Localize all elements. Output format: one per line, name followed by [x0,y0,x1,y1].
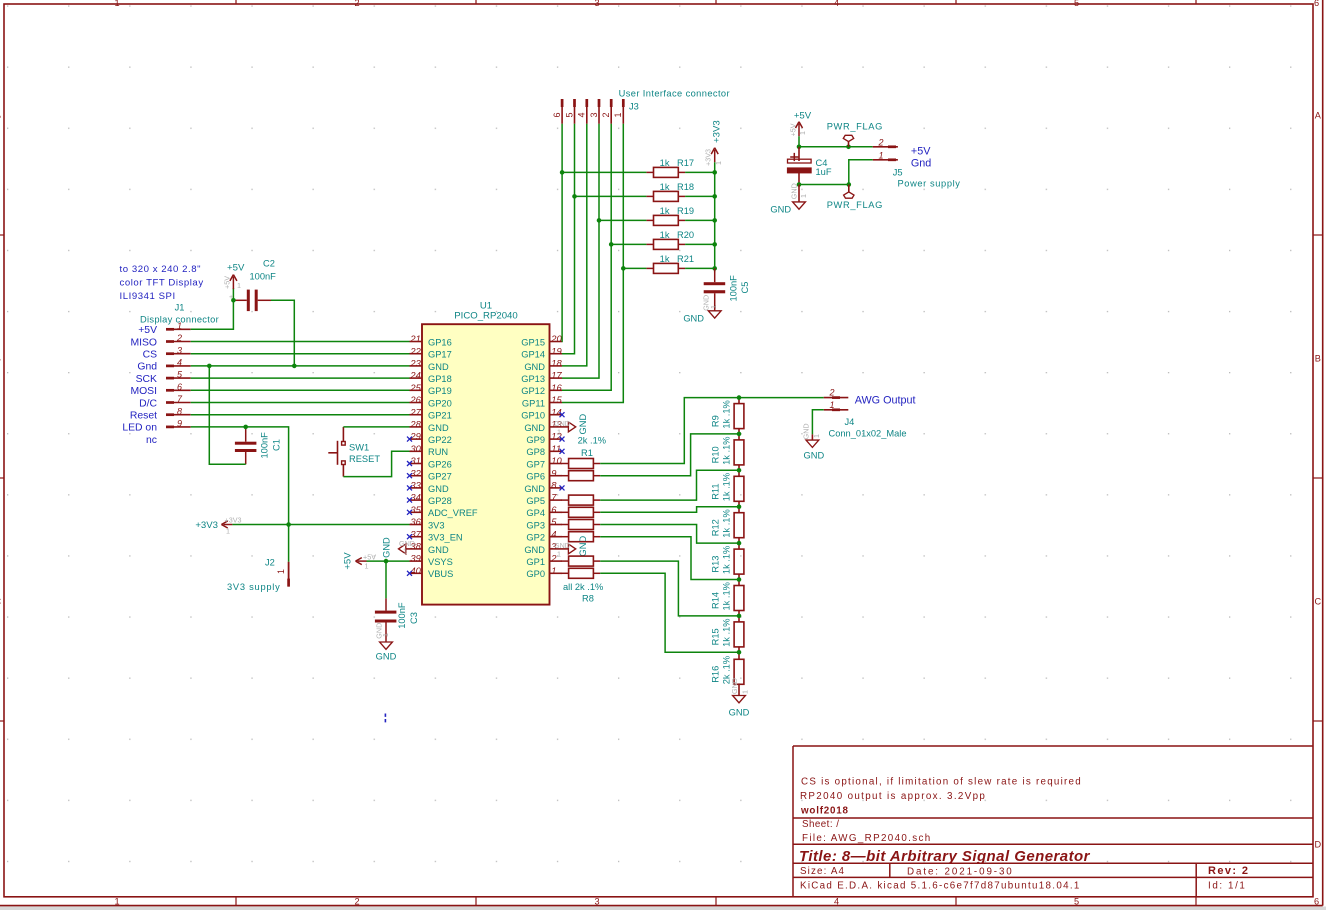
svg-text:PWR_FLAG: PWR_FLAG [827,200,883,210]
resistor R16 [710,652,744,695]
wire 3V3 to J2 [288,525,290,562]
wire [191,365,410,367]
svg-text:33: 33 [410,480,421,491]
svg-text:GP20: GP20 [428,398,452,408]
resistor R10 [710,434,744,470]
junction pull-up tap [609,242,614,247]
svg-text:1k: 1k [660,230,670,240]
svg-text:100nF: 100nF [397,602,407,629]
svg-text:39: 39 [410,553,421,564]
svg-text:Rev: 2: Rev: 2 [1208,865,1249,877]
svg-text:5: 5 [1074,897,1079,907]
svg-text:Gnd: Gnd [137,362,157,373]
svg-text:GP2: GP2 [526,533,545,543]
svg-text:1: 1 [226,527,230,536]
svg-text:9: 9 [177,419,182,429]
svg-text:GND: GND [524,545,545,555]
svg-text:R15: R15 [710,628,720,645]
svg-text:15: 15 [551,394,562,405]
junction PWR_FLAG top [846,145,851,150]
id field [1208,880,1246,891]
svg-text:C1: C1 [272,439,282,451]
power +3V3 above rail [704,120,724,166]
wire [191,389,410,391]
svg-text:4: 4 [551,528,556,539]
svg-text:R14: R14 [710,592,720,609]
svg-text:7: 7 [551,492,557,503]
svg-text:Power supply: Power supply [898,179,961,189]
resistor R9 [710,398,744,434]
wire J3 pin to U1 [561,124,563,342]
svg-text:2: 2 [601,112,611,117]
svg-text:2: 2 [354,0,359,8]
power GND below C4 [770,183,808,214]
svg-text:GND: GND [730,678,739,694]
wire [191,353,410,355]
svg-text:GP6: GP6 [526,472,545,482]
label D/C [139,398,157,409]
svg-text:R20: R20 [677,230,694,240]
svg-text:LED on: LED on [122,423,157,434]
svg-text:R18: R18 [677,182,694,192]
svg-text:MISO: MISO [130,337,157,348]
svg-text:37: 37 [410,528,421,539]
svg-text:+5V: +5V [138,325,157,336]
wire GP6 to ladder node [600,434,739,476]
svg-text:RESET: RESET [349,454,380,464]
svg-text:4: 4 [834,0,839,8]
label Gnd at J5 [911,157,931,169]
svg-text:R19: R19 [677,206,694,216]
junction ladder node [737,541,742,546]
sheet field [802,819,839,830]
junction C4 bottom [797,182,802,187]
svg-text:4: 4 [834,897,839,907]
svg-text:3: 3 [594,0,599,8]
svg-text:GP21: GP21 [428,411,452,421]
svg-text:to 320 x 240 2.8": to 320 x 240 2.8" [120,264,202,275]
svg-text:GND: GND [770,205,791,215]
svg-text:1k .1%: 1k .1% [722,436,732,464]
svg-text:GND: GND [804,451,825,461]
svg-text:31: 31 [410,455,420,466]
svg-text:GND: GND [524,484,545,494]
resistor R3 [562,495,601,505]
wire +3V3 rail [714,162,716,272]
connector J3 User Interface connector [552,89,730,124]
svg-text:1: 1 [709,305,718,309]
label LED on [122,423,157,434]
svg-text:RUN: RUN [428,447,448,457]
svg-text:Id: 1/1: Id: 1/1 [1208,880,1246,891]
svg-text:1: 1 [829,400,834,410]
svg-text:GND: GND [524,362,545,372]
svg-text:Sheet: /: Sheet: / [802,819,839,830]
svg-text:R21: R21 [677,254,694,264]
svg-text:5: 5 [551,516,557,527]
svg-text:18: 18 [551,358,562,369]
svg-text:Conn_01x02_Male: Conn_01x02_Male [829,429,907,439]
svg-text:User Interface connector: User Interface connector [619,89,730,99]
connector J5 Power supply [873,138,961,189]
svg-text:PICO_RP2040: PICO_RP2040 [454,311,517,322]
svg-text:GP13: GP13 [521,374,545,384]
resistor R14 [710,580,744,616]
label AWG Output [855,394,916,406]
wire tap to resistor [599,219,646,221]
capacitor C1 [235,427,282,464]
wire SW1 bottom to U1 pin 30 RUN [343,451,409,476]
power GND at U1 pin 38 [382,537,415,558]
svg-text:+5V: +5V [343,552,354,570]
svg-text:2: 2 [176,333,182,343]
svg-text:R16: R16 [710,666,720,683]
capacitor C4 [787,147,832,185]
svg-text:Reset: Reset [130,411,157,422]
resistor R21 [646,254,694,273]
svg-text:+3V3: +3V3 [704,149,713,166]
junction at +3V3 rail [712,194,717,199]
svg-text:GP17: GP17 [428,350,452,360]
power +3V3 at 3V3 net [195,516,241,536]
svg-text:100nF: 100nF [729,275,739,302]
svg-text:KiCad E.D.A. kicad 5.1.6-c6e7: KiCad E.D.A. kicad 5.1.6-c6e7f7d87ubuntu… [800,880,1081,891]
no-connect U1 pin 34 [407,498,412,503]
svg-text:+5V: +5V [363,553,376,562]
svg-text:GND: GND [683,314,704,324]
wire C1 to Gnd net [209,366,245,464]
junction pull-up tap [621,266,626,271]
svg-text:Size: A4: Size: A4 [800,866,845,877]
svg-text:4: 4 [177,358,182,368]
wire GP3 to ladder node [600,525,739,544]
svg-text:+3V3: +3V3 [712,120,723,143]
wire [191,341,410,343]
svg-text:SW1: SW1 [349,443,369,453]
svg-text:2: 2 [877,138,883,148]
svg-text:27: 27 [409,406,421,417]
svg-text:GND: GND [578,414,588,435]
resistor R2 [562,471,601,481]
svg-text:J1: J1 [175,303,185,313]
junction ladder node [737,614,742,619]
svg-text:3V3_EN: 3V3_EN [428,533,463,543]
svg-text:GND: GND [578,536,588,557]
svg-text:1k: 1k [660,206,670,216]
wire J3 pin to U1 [562,124,575,354]
no-connect U1 pin 11 [560,449,565,454]
svg-text:GP27: GP27 [428,472,452,482]
svg-text:35: 35 [410,504,421,515]
junction PWR_FLAG bottom [847,182,852,187]
resistor R1 [562,435,607,468]
svg-text:17: 17 [551,370,562,381]
svg-text:8: 8 [551,480,557,491]
svg-text:3V3: 3V3 [428,520,445,530]
label Gnd [137,362,157,373]
wire VSYS row [367,560,410,562]
resistor R7 [562,556,601,566]
junction at +3V3 rail [712,170,717,175]
svg-text:GP3: GP3 [526,520,545,530]
svg-text:100nF: 100nF [260,432,270,459]
svg-text:GP14: GP14 [521,350,545,360]
svg-text:1: 1 [613,112,623,117]
power GND at U1 pin 13 [554,414,588,437]
junction at +3V3 rail [712,218,717,223]
svg-text:ILI9341 SPI: ILI9341 SPI [120,291,176,302]
svg-text:GP22: GP22 [428,435,452,445]
label Reset [130,411,157,422]
margin column numbers bottom [114,897,1319,907]
svg-text:RP2040 output is approx. 3.2Vp: RP2040 output is approx. 3.2Vpp [800,791,986,802]
wire tap to resistor [562,171,646,173]
svg-text:1k .1%: 1k .1% [722,400,732,428]
wire J3 pin to U1 [562,124,599,378]
svg-text:1: 1 [812,434,821,438]
wire SW1 top to U1 pin 28 [343,426,409,428]
resistor R4 [562,507,601,517]
wire GP7 to ladder node [600,398,739,464]
junction ladder node [737,432,742,437]
wire [191,377,410,379]
svg-text:6: 6 [1314,0,1319,8]
svg-text:1: 1 [237,281,241,290]
wire J5 pin1 to GND net [799,160,873,185]
svg-text:10: 10 [551,455,562,466]
svg-text:1: 1 [798,131,807,135]
junction ladder node [737,395,742,400]
svg-text:GP19: GP19 [428,386,452,396]
no-connect U1 pin 37 [407,534,412,539]
svg-text:GND: GND [376,652,397,662]
svg-text:1: 1 [365,562,369,571]
wire tap to resistor [575,195,647,197]
power +5V at VSYS [343,552,377,571]
resistor R6 [562,532,601,542]
resistor R18 [646,182,694,201]
svg-text:40: 40 [410,565,421,576]
wire tap to resistor [623,267,646,269]
label MOSI [130,386,157,397]
power GND at J4 [801,423,824,460]
comment text line 2 [800,791,986,802]
svg-text:GP7: GP7 [526,459,545,469]
svg-text:6: 6 [1314,897,1319,907]
svg-text:B: B [1315,353,1321,363]
date field [907,866,1014,877]
svg-text:GND: GND [524,423,545,433]
no-connect U1 pin 33 [407,485,412,490]
svg-text:1k .1%: 1k .1% [722,582,732,610]
svg-text:Date: 2021-09-30: Date: 2021-09-30 [907,866,1014,877]
svg-text:GND: GND [428,362,449,372]
junction C1 top on LED net [243,425,248,430]
svg-text:6: 6 [177,382,182,392]
svg-text:28: 28 [409,419,421,430]
svg-text:16: 16 [551,382,562,393]
svg-text:MOSI: MOSI [130,386,157,397]
junction C2 tap on +5V [231,298,236,303]
wire GP2 to ladder node [600,537,739,580]
svg-text:VBUS: VBUS [428,569,453,579]
svg-text:+5V: +5V [794,111,812,122]
wire resistor to +3V3 rail [685,267,715,269]
svg-text:R17: R17 [677,158,694,168]
wire GP4 to ladder node [600,507,739,513]
wire 3V3 row to U1 pin 36 [232,524,409,526]
wire to C3 [385,561,387,598]
svg-text:GND: GND [382,537,392,558]
svg-text:5: 5 [1074,0,1079,8]
svg-text:ADC_VREF: ADC_VREF [428,508,478,518]
svg-text:GND: GND [801,423,810,439]
comment text line 3 wolf2018 [800,806,849,817]
svg-text:B: B [0,353,1,363]
svg-text:1k: 1k [660,254,670,264]
svg-text:VSYS: VSYS [428,557,453,567]
svg-text:1: 1 [551,565,556,576]
svg-text:GP18: GP18 [428,374,452,384]
svg-text:1: 1 [741,690,750,694]
svg-text:J5: J5 [893,167,903,177]
power GND below C5 [683,295,721,324]
svg-text:34: 34 [410,492,420,503]
svg-text:22: 22 [409,345,421,356]
svg-text:C: C [1314,596,1321,606]
resistor R12 [710,507,744,543]
svg-text:1: 1 [114,0,119,8]
svg-text:24: 24 [409,370,420,381]
svg-text:1: 1 [878,151,883,161]
svg-text:GP5: GP5 [526,496,545,506]
svg-text:GP16: GP16 [428,337,452,347]
svg-text:6: 6 [551,504,557,515]
power GND below R16 [729,678,750,717]
svg-text:GP1: GP1 [526,557,545,567]
svg-text:36: 36 [410,516,421,527]
svg-text:1: 1 [381,633,390,637]
svg-text:1k .1%: 1k .1% [722,546,732,574]
svg-text:100nF: 100nF [250,272,277,282]
label SCK [136,374,157,385]
label +5V at J5 [911,145,931,157]
svg-text:2k .1%: 2k .1% [578,435,606,445]
svg-text:Gnd: Gnd [911,157,931,169]
junction ladder node [737,650,742,655]
wire resistor to +3V3 rail [685,171,715,173]
svg-text:+5V: +5V [223,276,232,289]
label MISO [130,337,157,348]
svg-text:9: 9 [551,467,557,478]
wire +5V to J5 pin 2 [799,136,873,147]
junction 3V3 row at x288.6 [286,522,291,527]
svg-text:GP4: GP4 [526,508,545,518]
svg-text:GP8: GP8 [526,447,545,457]
junction at +3V3 rail [712,242,717,247]
wire GP5 to ladder node [600,470,739,500]
svg-text:J4: J4 [845,417,855,427]
wire resistor to +3V3 rail [685,195,715,197]
wire C2 to Gnd row [271,300,294,366]
title field [799,848,1091,865]
svg-text:21: 21 [409,333,420,344]
junction ladder node [737,577,742,582]
svg-text:GP12: GP12 [521,386,545,396]
svg-text:1: 1 [799,194,808,198]
svg-text:color TFT Display: color TFT Display [120,278,204,289]
svg-text:+3V3: +3V3 [195,520,218,531]
svg-text:1: 1 [114,897,119,907]
no-connect U1 pin 35 [407,510,412,515]
svg-text:GP28: GP28 [428,496,452,506]
svg-text:1: 1 [276,569,286,574]
wire [191,402,410,404]
wire LED on net [191,427,289,525]
svg-text:25: 25 [409,382,421,393]
svg-text:26: 26 [409,394,421,405]
svg-text:File: AWG_RP2040.sch: File: AWG_RP2040.sch [802,833,932,844]
svg-text:GP11: GP11 [522,398,545,408]
svg-text:PWR_FLAG: PWR_FLAG [827,121,883,131]
svg-text:Title: 8—bit Arbitrary Signal: Title: 8—bit Arbitrary Signal Generator [799,848,1091,865]
margin column numbers top (cut) [114,0,1319,8]
svg-text:1uF: 1uF [816,167,832,177]
svg-text:3V3 supply: 3V3 supply [227,582,281,592]
svg-text:GP15: GP15 [521,337,545,347]
no-connect U1 pin 8 [560,485,565,490]
svg-text:8: 8 [177,406,182,416]
svg-text:20: 20 [550,333,562,344]
power GND below C3 [375,623,397,662]
junction ladder node [737,468,742,473]
svg-text:GND: GND [789,183,798,199]
svg-text:+5V: +5V [911,145,931,157]
svg-text:C5: C5 [740,282,750,294]
svg-text:AWG Output: AWG Output [855,394,916,406]
wire resistor to +3V3 rail [685,243,715,245]
svg-text:R10: R10 [710,446,720,463]
capacitor C3 [375,598,419,642]
svg-text:J3: J3 [629,102,639,112]
comment text line 1 [801,777,1082,788]
connector J4 Conn_01x02_Male [824,388,907,439]
svg-text:wolf2018: wolf2018 [800,806,849,817]
svg-text:+5V: +5V [788,123,797,136]
no-connect U1 pin 32 [407,473,412,478]
svg-text:GND: GND [729,708,750,718]
svg-text:GND: GND [428,423,449,433]
svg-text:11: 11 [551,443,561,454]
resistor R11 [710,470,744,506]
svg-text:nc: nc [146,435,157,446]
no-connect U1 pin 29 [407,437,412,442]
svg-text:GND: GND [428,545,449,555]
power +5V supply [788,111,811,137]
resistor R20 [646,230,694,249]
svg-text:3: 3 [594,897,599,907]
wire GP0 to ladder node [600,573,739,652]
wire J3 pin to U1 [562,124,587,366]
connector J1 Display connector [140,303,219,429]
junction pull-up tap [572,194,577,199]
wire GP1 to ladder node [600,561,739,616]
wire resistor to +3V3 rail [685,219,715,221]
svg-text:CS is optional, if limitation: CS is optional, if limitation of slew ra… [801,777,1082,788]
svg-text:3: 3 [589,112,599,117]
svg-text:R9: R9 [710,415,720,427]
svg-text:R12: R12 [710,519,720,536]
